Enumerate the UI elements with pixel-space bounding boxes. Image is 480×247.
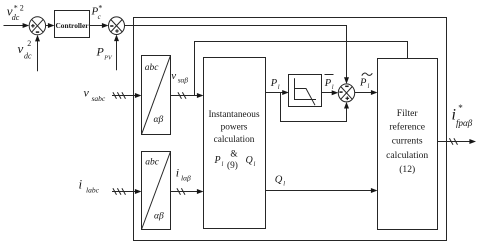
wire output ifp: [438, 138, 477, 145]
svg-text:PV: PV: [103, 55, 113, 61]
svg-text:v: v: [18, 41, 24, 56]
svg-text:αβ: αβ: [154, 115, 164, 125]
svg-text:calculation: calculation: [214, 135, 255, 145]
svg-text:Controller: Controller: [55, 21, 89, 30]
svg-text:l: l: [332, 84, 334, 91]
svg-text:v: v: [84, 85, 90, 99]
label vsalphabeta: [171, 70, 188, 84]
abc to alpha-beta box T2: [142, 152, 171, 230]
summing junction S2: [109, 17, 125, 35]
svg-text:*: *: [458, 103, 463, 113]
svg-text:P: P: [270, 78, 278, 89]
wire vdc* input: [4, 23, 30, 28]
svg-text:l: l: [368, 83, 370, 90]
svg-text:calculation: calculation: [386, 150, 428, 161]
svg-text:l: l: [254, 161, 256, 168]
svg-text:P: P: [359, 78, 367, 89]
label Pl: [270, 78, 280, 91]
svg-text:Filter: Filter: [397, 108, 419, 119]
svg-text:abc: abc: [145, 158, 160, 168]
svg-text:Instantaneous: Instantaneous: [208, 110, 260, 120]
wire Pl to LPF: [266, 90, 289, 95]
controller box: [55, 11, 90, 38]
wire PPV up arrow: [114, 35, 119, 71]
svg-text:(9): (9): [227, 160, 238, 171]
svg-text:l: l: [283, 181, 285, 188]
svg-text:abc: abc: [145, 63, 160, 73]
wire vsabc input: [112, 92, 142, 99]
svg-text:v: v: [171, 70, 176, 82]
summing junction S3: [338, 84, 354, 102]
svg-text:lαβ: lαβ: [181, 173, 191, 182]
svg-text:fpαβ: fpαβ: [456, 118, 473, 128]
svg-text:sαβ: sαβ: [178, 75, 189, 84]
wire Pltilde to filter box: [355, 90, 378, 95]
wire vdc feedback up arrow: [35, 35, 40, 71]
outer box: [134, 18, 447, 241]
instantaneous powers calculation box: [204, 58, 266, 229]
svg-text:powers: powers: [221, 123, 248, 133]
label Pl tilde: [359, 73, 372, 90]
wire S1 to controller: [46, 23, 55, 28]
svg-text:i: i: [176, 166, 179, 180]
svg-text:2: 2: [27, 39, 31, 48]
svg-text:P: P: [324, 78, 332, 89]
label Ql: [275, 175, 286, 188]
svg-text:P: P: [214, 155, 221, 166]
label Pc*: [91, 4, 103, 21]
wire vsalphabeta to powers box: [171, 92, 204, 99]
wire ilabc input: [112, 188, 142, 195]
wire S2 output rail to S3: [125, 26, 350, 84]
label PPV: [96, 45, 113, 62]
svg-text:labc: labc: [86, 186, 100, 195]
label v*dc2: [7, 3, 24, 22]
label ifp output: [452, 103, 473, 128]
svg-text:Q: Q: [246, 155, 254, 166]
svg-text:αβ: αβ: [154, 212, 164, 222]
label vsabc: [84, 85, 106, 103]
wire Ql to filter box: [266, 188, 378, 193]
svg-text:currents: currents: [392, 136, 423, 147]
svg-text:l: l: [278, 84, 280, 91]
svg-text:i: i: [79, 177, 83, 192]
svg-text:P: P: [96, 45, 105, 59]
svg-text:dc: dc: [12, 13, 20, 22]
wire Plbar to S3: [322, 90, 339, 95]
svg-text:&: &: [230, 150, 238, 160]
summing junction S1: [29, 17, 45, 35]
svg-text:*: *: [98, 4, 102, 13]
wire ilalphabeta to powers box: [171, 188, 204, 195]
svg-text:(12): (12): [399, 164, 415, 175]
label vdc2: [18, 39, 33, 61]
svg-text:l: l: [222, 161, 224, 168]
wire controller to S2: [90, 23, 109, 28]
label Pl bar: [324, 75, 334, 92]
filter reference currents box: [378, 59, 438, 230]
label ilalphabeta: [176, 166, 191, 183]
abc to alpha-beta box T1: [142, 56, 171, 135]
svg-text:reference: reference: [389, 122, 425, 133]
svg-text:* 2: * 2: [14, 3, 24, 12]
wire vsalphabeta branch to filter box top: [195, 42, 408, 96]
low pass filter box: [289, 75, 322, 107]
label ilabc: [79, 177, 100, 195]
svg-text:sabc: sabc: [92, 94, 106, 103]
svg-text:Q: Q: [275, 175, 283, 186]
svg-text:dc: dc: [24, 51, 32, 60]
wire Pl bypass to S3 bottom: [281, 93, 350, 122]
